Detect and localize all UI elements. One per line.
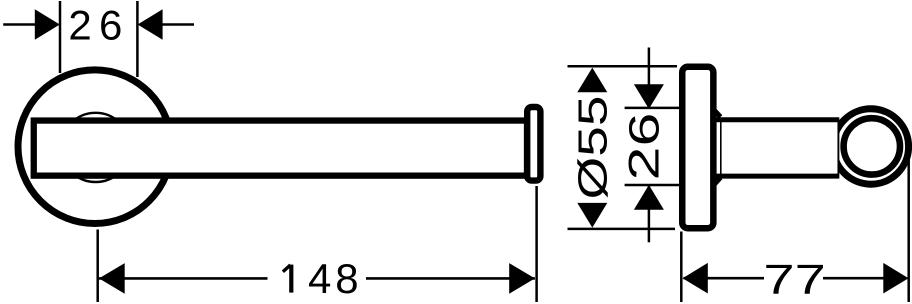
svg-text:26: 26 <box>622 113 669 181</box>
svg-text:77: 77 <box>763 255 825 302</box>
svg-text:Ø55: Ø55 <box>569 96 615 200</box>
